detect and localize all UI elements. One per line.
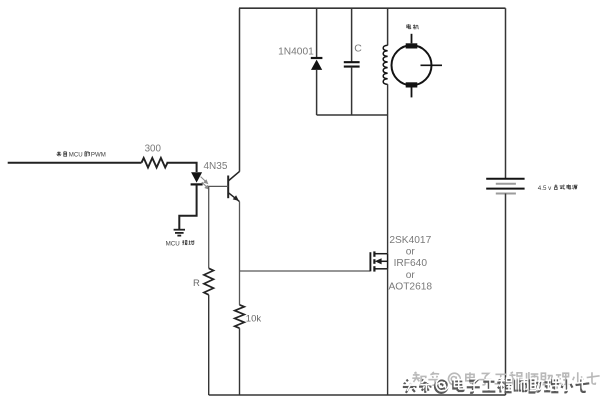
svg-text:2SK4017: 2SK4017: [389, 235, 431, 246]
motor M1 top stub: [411, 34, 413, 44]
wire: 10k to bottom rail: [239, 328, 241, 395]
watermark: back layer 知乎 @电子工程师助理小七: [412, 372, 599, 385]
emitter arrowhead: [233, 195, 239, 201]
label 4.5 v 台式电源: [538, 185, 578, 192]
capacitor C: [344, 62, 360, 66]
wire: input from MCU PWM: [8, 162, 142, 164]
svg-text:MCU: MCU: [69, 151, 83, 158]
svg-text:1N4001: 1N4001: [278, 47, 314, 58]
svg-text:AOT2618: AOT2618: [388, 281, 432, 292]
watermark: front shadow layer 头条@电子工程师助理小七: [403, 379, 589, 393]
svg-text:4.5 v: 4.5 v: [538, 185, 552, 192]
wire: collector to top rail: [239, 8, 241, 171]
motor bottom stub: [411, 88, 413, 98]
label MCU 接地: [166, 240, 194, 247]
ground MCU: [174, 230, 185, 236]
battery 4.5V: [486, 179, 524, 194]
svg-text:or: or: [406, 270, 416, 281]
wire: bottom rail: [209, 394, 506, 396]
MOSFET body-diode arrow: [375, 258, 382, 264]
wire: emitter down to gate node: [239, 202, 241, 271]
inductor (motor winding): [383, 45, 387, 84]
resistor 300: [142, 158, 168, 168]
svg-text:IRF640: IRF640: [394, 258, 428, 269]
wire: R to bottom rail: [208, 295, 210, 395]
wire: capacitor bottom: [351, 67, 353, 115]
wire: gate node down to 10k: [239, 271, 241, 305]
capacitor C top wire: [351, 8, 353, 62]
motor M1: [392, 43, 432, 87]
svg-text:or: or: [406, 247, 416, 258]
wire: LED cathode to MCU ground: [179, 184, 196, 229]
optocoupler U1 4N35: LED (anode top, cathode bottom): [191, 172, 203, 184]
optocoupler U1 4N35: phototransistor: [228, 171, 239, 201]
wire: inductor top: [387, 8, 389, 45]
svg-text:300: 300: [145, 143, 162, 154]
wire: battery - to bottom rail: [505, 194, 507, 396]
wire: gate wire to MOSFET: [240, 270, 371, 272]
svg-text:MCU: MCU: [166, 240, 180, 247]
wire: MOSFET drain up to snubber node: [387, 115, 389, 254]
watermark: front white layer 头条@电子工程师助理小七: [404, 377, 590, 391]
diode 1N4001: [311, 58, 323, 70]
wire: right rail top (to battery +): [505, 8, 507, 179]
wire: base to resistor R: [209, 186, 229, 268]
svg-text:PWM: PWM: [91, 151, 106, 158]
wire: top supply rail: [239, 7, 506, 9]
svg-text:10k: 10k: [246, 314, 262, 325]
wire: snubber bottom horizontal: [317, 114, 388, 116]
resistor R: [204, 268, 214, 294]
label 来自MCU 的PWM: [56, 151, 105, 158]
motor shaft line: [421, 64, 443, 66]
wire: inductor bottom continues to drain node: [387, 84, 389, 115]
svg-text:R: R: [193, 278, 200, 289]
wire: diode anode to snubber bottom: [316, 70, 318, 115]
diode 1N4001 branch top wire: [316, 8, 318, 58]
light arrows of optocoupler: [201, 177, 209, 189]
MOSFET Q1 (N-channel): [370, 251, 387, 271]
svg-text:C: C: [354, 43, 362, 55]
resistor 10k: [235, 305, 245, 328]
label 电机: [407, 24, 419, 29]
wire: resistor to opto LED anode: [167, 163, 197, 172]
svg-text:4N35: 4N35: [204, 161, 228, 172]
label 2SK4017 or IRF640 or AOT2618: [388, 235, 432, 292]
wire: MOSFET source to bottom rail: [387, 269, 389, 395]
